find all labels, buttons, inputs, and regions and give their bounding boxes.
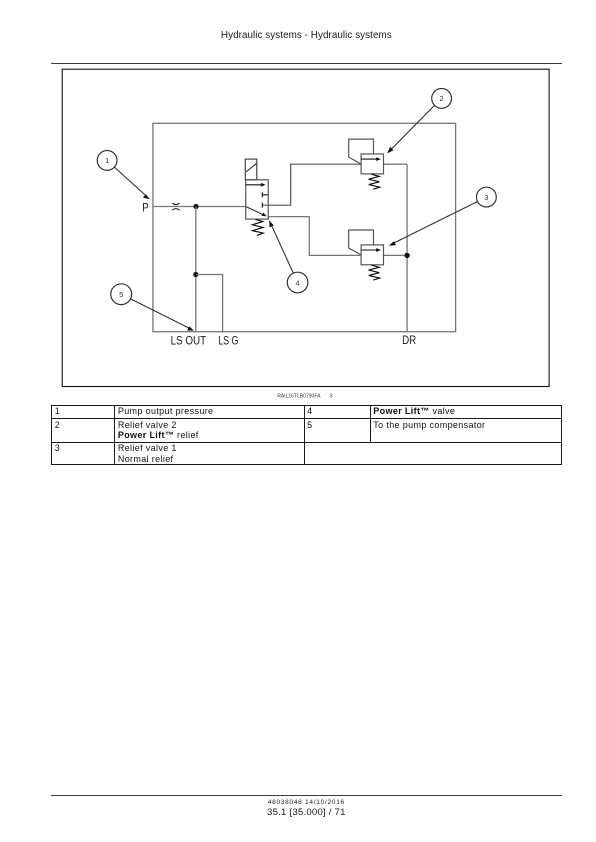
wire: P supply line [153, 206, 246, 208]
svg-text:DR: DR [402, 333, 416, 347]
wire: LS G branch [196, 275, 223, 332]
svg-text:1: 1 [105, 156, 109, 165]
reducing valve pilot dashes [262, 192, 267, 208]
svg-text:RAIL16TLB0790FA: RAIL16TLB0790FA [277, 393, 321, 399]
relief valve 1 internal arrow [361, 248, 381, 252]
port label LS G [218, 333, 238, 347]
relief valve 2 internal arrow [361, 157, 381, 161]
schematic inner boundary box [153, 123, 456, 331]
relief valve 2 (item 2) body [361, 154, 383, 174]
svg-text:LS G: LS G [218, 333, 238, 347]
svg-text:P: P [142, 201, 149, 215]
figure caption [277, 393, 332, 399]
relief valve 1 pilot flag [349, 230, 374, 255]
footer rule [51, 795, 562, 796]
svg-text:2: 2 [439, 94, 443, 103]
reducing valve (item 4) pilot adjust box [245, 159, 256, 180]
wire: upper relief valve output [384, 163, 408, 165]
port label DR [402, 333, 416, 347]
header text [51, 30, 562, 41]
svg-text:3: 3 [484, 193, 488, 202]
relief valve 1 spring [369, 265, 380, 280]
port label P [142, 201, 149, 215]
junction dot on P line [193, 204, 198, 209]
header rule [51, 63, 562, 65]
relief valve 2 pilot flag [349, 139, 374, 164]
svg-text:LS OUT: LS OUT [171, 333, 207, 347]
relief valve 2 spring [369, 174, 380, 189]
reducing valve diagonal flow path [246, 207, 267, 217]
callout 3 [389, 187, 497, 245]
wire: LS OUT drop line [195, 207, 197, 332]
callout 5 [111, 284, 194, 331]
port label LS OUT [171, 333, 207, 347]
reducing valve spring [252, 219, 263, 235]
svg-text:4: 4 [295, 278, 299, 287]
wire: pilot line to upper relief valve [262, 164, 361, 205]
callout 2 [387, 89, 451, 154]
reducing valve (item 4) main box [246, 180, 269, 219]
orifice on P line [172, 203, 179, 210]
callout 4 [269, 220, 308, 293]
wire: lower relief valve output [383, 254, 407, 256]
wire: valve output to lower relief valve [268, 217, 361, 256]
footer line 2 [51, 807, 562, 818]
junction dot on DR line [404, 253, 409, 258]
relief valve 1 (item 3) body [361, 245, 383, 265]
figure frame [62, 69, 549, 386]
junction dot on LS OUT line [193, 272, 198, 277]
svg-text:5: 5 [119, 290, 123, 299]
footer line 1 [51, 799, 562, 806]
svg-text:3: 3 [330, 393, 333, 399]
callout 1 [97, 151, 150, 200]
reducing valve internal flow arrow [246, 183, 266, 187]
legend table [51, 405, 561, 466]
wire: DR drain line [406, 164, 408, 332]
